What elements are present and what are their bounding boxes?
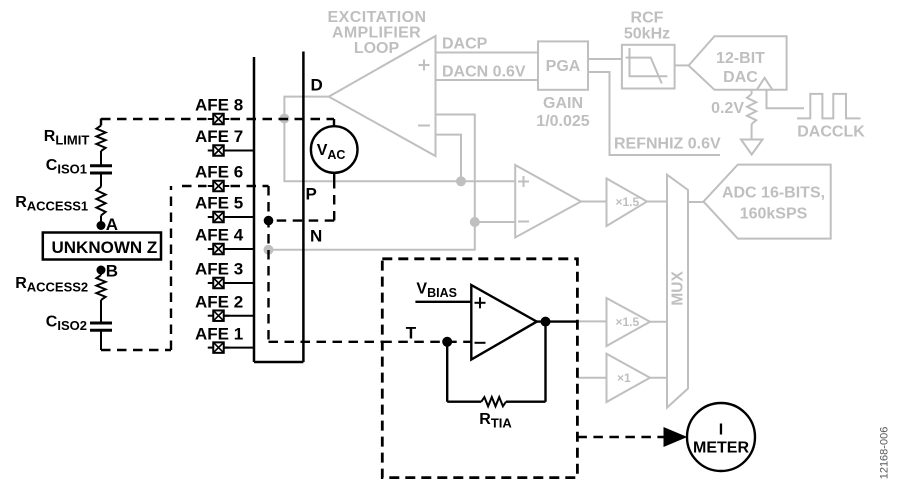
svg-text:12168-006: 12168-006 xyxy=(879,427,891,480)
svg-text:LOOP: LOOP xyxy=(354,40,400,57)
svg-text:I: I xyxy=(719,422,723,439)
svg-text:N: N xyxy=(310,226,322,245)
svg-text:160kSPS: 160kSPS xyxy=(740,206,808,223)
svg-text:ADC 16-BITS,: ADC 16-BITS, xyxy=(722,185,825,202)
svg-text:UNKNOWN Z: UNKNOWN Z xyxy=(52,238,158,257)
svg-text:1/0.025: 1/0.025 xyxy=(536,113,589,130)
svg-text:GAIN: GAIN xyxy=(543,95,583,112)
svg-text:RCF: RCF xyxy=(631,10,664,27)
svg-text:×1.5: ×1.5 xyxy=(616,315,640,329)
svg-text:×1.5: ×1.5 xyxy=(616,195,640,209)
svg-text:B: B xyxy=(106,261,118,280)
svg-text:AMPLIFIER: AMPLIFIER xyxy=(332,24,421,41)
svg-text:A: A xyxy=(106,215,118,234)
svg-text:T: T xyxy=(406,323,417,342)
svg-text:P: P xyxy=(306,184,317,203)
svg-text:AFE 4: AFE 4 xyxy=(195,226,244,245)
svg-text:METER: METER xyxy=(693,440,749,457)
svg-text:AFE 8: AFE 8 xyxy=(195,96,243,115)
svg-text:AFE 3: AFE 3 xyxy=(195,260,243,279)
svg-text:AFE 6: AFE 6 xyxy=(195,163,243,182)
svg-text:0.2V: 0.2V xyxy=(711,100,744,117)
svg-text:12-BIT: 12-BIT xyxy=(716,50,765,67)
svg-text:×1: ×1 xyxy=(617,371,631,385)
svg-text:DACP: DACP xyxy=(442,36,488,53)
svg-text:DACCLK: DACCLK xyxy=(797,123,865,140)
svg-text:AFE 2: AFE 2 xyxy=(195,292,243,311)
svg-text:AFE 5: AFE 5 xyxy=(195,194,243,213)
svg-text:MUX: MUX xyxy=(670,271,687,306)
svg-text:PGA: PGA xyxy=(546,58,581,75)
svg-text:50kHz: 50kHz xyxy=(624,26,670,43)
svg-text:DAC: DAC xyxy=(723,69,758,86)
svg-text:DACN 0.6V: DACN 0.6V xyxy=(442,64,526,81)
svg-text:REFNHIZ 0.6V: REFNHIZ 0.6V xyxy=(614,136,721,153)
svg-text:D: D xyxy=(311,76,323,95)
svg-text:AFE 7: AFE 7 xyxy=(195,127,243,146)
svg-text:EXCITATION: EXCITATION xyxy=(327,9,426,26)
svg-text:AFE 1: AFE 1 xyxy=(195,324,243,343)
